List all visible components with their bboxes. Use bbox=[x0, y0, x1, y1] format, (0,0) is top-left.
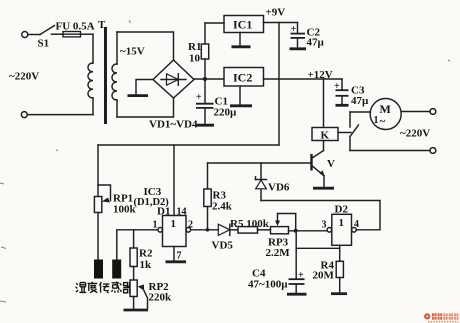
svg-text:~: ~ bbox=[380, 116, 386, 128]
ground below C4 bbox=[287, 293, 307, 296]
wire bottom to terminal bbox=[350, 150, 430, 152]
svg-text:S1: S1 bbox=[38, 38, 50, 50]
svg-text:IC1: IC1 bbox=[233, 18, 252, 32]
ground below C3 bbox=[336, 104, 349, 107]
transformer T primary winding bbox=[88, 34, 93, 114]
humidity sensor electrode left bbox=[94, 260, 103, 279]
relay K coil bbox=[312, 128, 338, 142]
potentiometer RP3 2.2M bbox=[266, 214, 296, 260]
gate D1 bbox=[158, 216, 191, 247]
transformer core bbox=[98, 19, 106, 124]
ground D1 pin7 bbox=[166, 247, 187, 262]
wire bridge output to IC2 bbox=[194, 78, 224, 80]
watermark logo bbox=[424, 313, 458, 322]
svg-text:T: T bbox=[98, 19, 106, 31]
wire pin14 to +9V bbox=[173, 145, 175, 216]
ground below RP2 bbox=[124, 309, 149, 312]
wire K to collector bbox=[323, 141, 325, 151]
potentiometer RP2 220k bbox=[130, 280, 172, 310]
svg-text:VD6: VD6 bbox=[268, 182, 290, 194]
svg-text:+: + bbox=[298, 270, 304, 281]
svg-text:VD5: VD5 bbox=[212, 240, 234, 252]
capacitor C4 bbox=[248, 231, 305, 293]
label humidity sensor (Chinese) bbox=[76, 281, 134, 293]
wire secondary top to bridge bbox=[117, 32, 174, 60]
terminal bottom-left bbox=[21, 112, 27, 118]
svg-text:3: 3 bbox=[322, 220, 327, 231]
svg-text:~220V: ~220V bbox=[9, 71, 39, 83]
svg-text:220k: 220k bbox=[149, 292, 173, 304]
svg-text:+: + bbox=[291, 24, 297, 35]
svg-text:1: 1 bbox=[339, 217, 345, 229]
svg-text:100k: 100k bbox=[113, 204, 137, 216]
wire +9V drop to bottom rail bbox=[278, 23, 280, 146]
resistor R5 100k bbox=[230, 218, 271, 233]
svg-text:R1: R1 bbox=[188, 41, 201, 53]
svg-text:10: 10 bbox=[189, 53, 201, 65]
svg-text:+12V: +12V bbox=[308, 69, 333, 81]
potentiometer RP1 100k bbox=[94, 145, 136, 260]
switch S1 bbox=[38, 26, 55, 50]
svg-text:1: 1 bbox=[153, 220, 158, 231]
IC2 bbox=[224, 68, 264, 87]
wire bbox=[81, 33, 94, 35]
svg-text:7: 7 bbox=[177, 251, 182, 262]
ground transistor emitter bbox=[313, 176, 334, 188]
junction R3/VD5 bbox=[206, 228, 210, 232]
wire D1 input bbox=[117, 230, 158, 260]
transformer secondary winding bbox=[112, 32, 117, 117]
node RP3 wiper bbox=[294, 229, 298, 233]
resistor R3 2.4k bbox=[204, 163, 233, 230]
svg-text:~15V: ~15V bbox=[120, 46, 145, 58]
wire secondary bottom to bridge bbox=[117, 98, 174, 117]
ground IC2 bbox=[230, 86, 252, 106]
ground below R4 bbox=[331, 292, 347, 295]
wire bbox=[52, 33, 64, 35]
wire contact to motor bbox=[350, 111, 370, 113]
svg-text:M: M bbox=[380, 102, 391, 116]
resistor R4 20M bbox=[313, 260, 344, 293]
wire B base rail bbox=[208, 162, 312, 164]
svg-text:VD1~VD4: VD1~VD4 bbox=[149, 119, 198, 131]
wire bbox=[28, 34, 40, 36]
terminal motor bottom bbox=[430, 148, 436, 154]
wire IC2 output +12V rail bbox=[264, 78, 343, 80]
wire D2 bottom to R4 bbox=[339, 245, 341, 261]
wire +12V to relay K bbox=[323, 79, 325, 128]
svg-text:14: 14 bbox=[177, 207, 187, 218]
transistor V bbox=[312, 151, 336, 177]
terminal top-left bbox=[22, 32, 28, 38]
ground below C1 bbox=[196, 124, 214, 127]
svg-text:FU 0.5A: FU 0.5A bbox=[56, 21, 95, 33]
wire IC1 input bbox=[205, 22, 224, 24]
ground IC1 bbox=[232, 33, 251, 47]
gate D2 bbox=[327, 214, 356, 245]
svg-text:47µ: 47µ bbox=[307, 37, 325, 49]
svg-text:1: 1 bbox=[171, 218, 177, 230]
fuse FU 0.5A bbox=[56, 21, 95, 37]
wire D1 output bbox=[191, 229, 219, 231]
ground below C2 bbox=[290, 47, 307, 50]
svg-text:2: 2 bbox=[188, 220, 193, 231]
humidity sensor electrode right bbox=[112, 260, 121, 279]
svg-text:220µ: 220µ bbox=[214, 107, 238, 119]
svg-text:~220V: ~220V bbox=[400, 128, 430, 140]
svg-text:47~100µ: 47~100µ bbox=[248, 279, 288, 291]
svg-text:1k: 1k bbox=[140, 259, 153, 271]
svg-text:4: 4 bbox=[354, 219, 359, 230]
motor M bbox=[370, 99, 401, 130]
svg-text:+: + bbox=[334, 81, 340, 92]
svg-text:D2: D2 bbox=[335, 204, 349, 216]
node rectifier output bbox=[203, 77, 207, 81]
svg-text:+9V: +9V bbox=[266, 7, 286, 19]
svg-text:IC2: IC2 bbox=[233, 71, 252, 85]
wire A +9V horizontal feed bbox=[98, 144, 279, 146]
svg-text:2.2M: 2.2M bbox=[266, 247, 291, 259]
svg-text:+: + bbox=[196, 92, 202, 103]
svg-text:R5 100k: R5 100k bbox=[230, 218, 270, 230]
zener diode VD6 bbox=[256, 163, 290, 201]
svg-text:R2: R2 bbox=[139, 248, 153, 260]
resistor R2 1k bbox=[130, 230, 153, 280]
IC1 bbox=[224, 16, 264, 33]
bridge rectifier VD1~VD4 bbox=[149, 60, 198, 131]
ground at bridge left bbox=[128, 80, 154, 96]
svg-text:K: K bbox=[321, 130, 330, 142]
capacitor C1 220u bbox=[196, 79, 237, 124]
resistor R1 10 bbox=[188, 23, 209, 79]
svg-text:V: V bbox=[327, 158, 335, 170]
wire bbox=[27, 114, 93, 116]
wire C4 node to R4 bbox=[296, 247, 340, 249]
wire motor to terminal bbox=[401, 111, 430, 113]
svg-text:1: 1 bbox=[374, 115, 379, 126]
relay contact bbox=[338, 112, 359, 151]
wire RP3 to D2 bbox=[289, 230, 328, 232]
wire IC1 output +9V rail bbox=[264, 22, 298, 24]
diode VD5 bbox=[212, 224, 239, 251]
capacitor C3 47u bbox=[334, 79, 369, 107]
svg-text:47µ: 47µ bbox=[351, 95, 369, 107]
terminal motor top bbox=[430, 109, 436, 115]
svg-text:20M: 20M bbox=[313, 270, 335, 282]
svg-text:(D1,D2): (D1,D2) bbox=[134, 197, 170, 208]
wire D2 output to VD6 bbox=[261, 201, 380, 230]
svg-text:2.4k: 2.4k bbox=[212, 201, 233, 213]
capacitor C2 47u bbox=[291, 23, 325, 49]
